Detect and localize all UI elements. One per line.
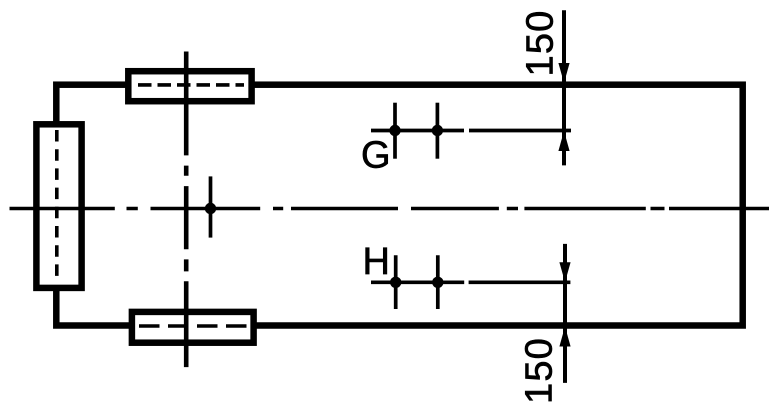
hidden line in left pad (55, 130, 59, 283)
vertical centerline (184, 52, 189, 368)
top dimension arrow down (558, 63, 569, 83)
bottom dimension arrow down (559, 262, 570, 282)
target point G1 (389, 125, 400, 136)
target line H (371, 280, 570, 284)
top pad (datum feature block) (128, 71, 251, 101)
center datum point (205, 203, 216, 214)
top dimension line (562, 10, 566, 165)
target point H2 (432, 277, 443, 288)
bottom dimension line (563, 244, 567, 383)
target line G (371, 129, 571, 133)
svg-text:H: H (363, 241, 392, 283)
main frame outline (56, 85, 742, 326)
target point H1 (390, 277, 401, 288)
horizontal centerline (10, 207, 770, 211)
svg-text:G: G (361, 135, 392, 177)
bottom pad (datum feature block) (132, 312, 254, 343)
hidden line in top pad (138, 83, 244, 87)
hidden line in bottom pad (139, 324, 247, 328)
svg-text:150: 150 (520, 9, 562, 76)
top dimension arrow up (558, 131, 569, 151)
bottom dimension arrow up (559, 327, 570, 347)
left pad (datum feature block) (36, 124, 81, 288)
svg-text:150: 150 (519, 337, 561, 404)
target point G2 (432, 125, 443, 136)
